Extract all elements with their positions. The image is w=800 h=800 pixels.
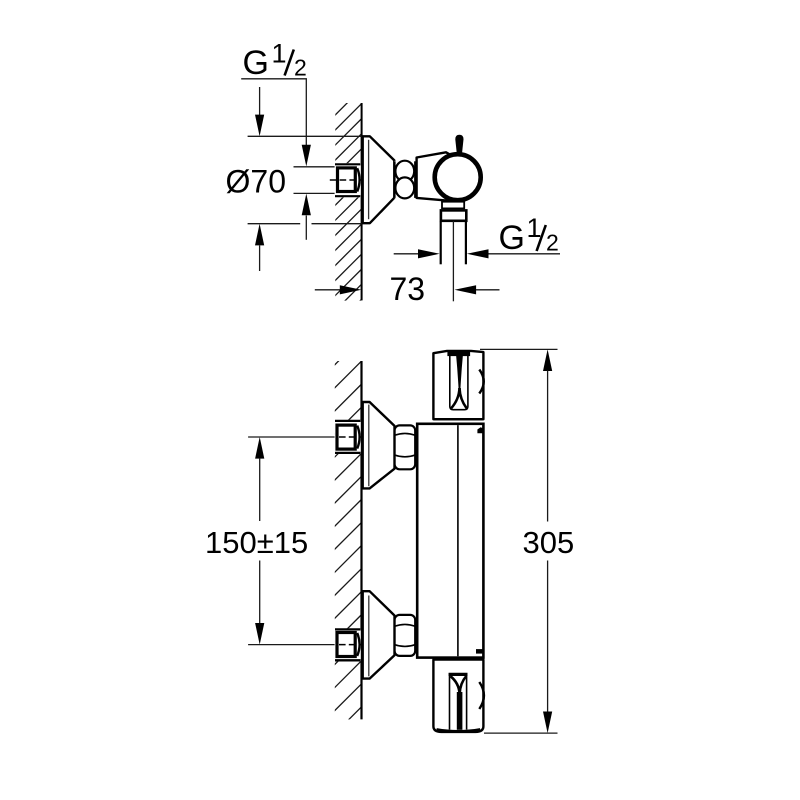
svg-text:1: 1 bbox=[527, 213, 542, 243]
lower square dashed centerline bbox=[339, 644, 361, 646]
union nut flange lines (top view square) bbox=[335, 163, 360, 165]
bottom cap grip top band bbox=[449, 673, 468, 676]
G1/2 pipe dimension line left part with arrow bbox=[394, 253, 418, 255]
Ø70 dimension arrow (up, below bottom line) with shaft bbox=[255, 224, 264, 246]
bottom cap grip wedge bbox=[457, 692, 463, 730]
outlet pipe walls bbox=[440, 222, 442, 265]
wall surface line (front view) bbox=[360, 361, 362, 719]
wall surface line (top view) bbox=[361, 103, 363, 300]
svg-text:2: 2 bbox=[546, 230, 559, 256]
upper spigot dome arc bbox=[357, 426, 359, 449]
lever knob on top bbox=[455, 135, 463, 155]
bottom cap (volume handle) bbox=[433, 660, 483, 732]
leader line under G 1/2 bbox=[241, 79, 306, 146]
top cap grip groove bbox=[450, 354, 468, 410]
top cap grip wedge bbox=[456, 354, 463, 391]
svg-text:G: G bbox=[499, 219, 525, 257]
Ø70 dimension arrow (down, above top line) with shaft bbox=[259, 87, 261, 116]
lower spigot dome arc bbox=[357, 633, 359, 656]
thermostat knob (top view circle) bbox=[435, 154, 481, 200]
lower square white underlay bbox=[335, 628, 361, 661]
neck ring below knob bbox=[442, 202, 464, 209]
upper hex nut (front view) bbox=[395, 425, 416, 469]
top cap grip horns bbox=[451, 388, 459, 408]
dimension text G 1/2 (right) bbox=[499, 213, 559, 257]
square union white underlay bbox=[335, 163, 361, 197]
150±15 lower extension line bbox=[248, 644, 335, 646]
upper escutcheon (front view) bbox=[363, 402, 395, 488]
body clip mark bottom right bbox=[476, 649, 483, 654]
spigot dome arc bbox=[357, 168, 359, 191]
upper square nut (front view) bbox=[337, 425, 355, 449]
svg-text:73: 73 bbox=[390, 271, 426, 307]
escutcheon (top view cone) bbox=[363, 136, 395, 223]
thermostat body (front view) bbox=[417, 424, 483, 658]
305 dimension line with arrows bbox=[543, 349, 552, 371]
150±15 dimension line with arrows bbox=[255, 437, 264, 459]
svg-text:305: 305 bbox=[523, 525, 575, 560]
escutcheon base rim line bbox=[368, 140, 370, 219]
square nut (wall union, top view) bbox=[338, 168, 356, 192]
lower hex nut (front view) bbox=[395, 615, 416, 656]
73 dimension right arrow to pipe centerline bbox=[455, 285, 477, 294]
bottom cap grip groove bbox=[449, 673, 451, 730]
body center seam bbox=[457, 425, 459, 656]
lower union flange lines (front view) bbox=[335, 628, 361, 630]
svg-text:2: 2 bbox=[294, 55, 307, 81]
body clip mark top right bbox=[477, 427, 483, 433]
svg-text:150±15: 150±15 bbox=[205, 525, 308, 560]
150±15 upper extension line bbox=[248, 436, 335, 438]
valve body (top view) bbox=[417, 152, 457, 200]
wall hatch (top view) bbox=[330, 89, 361, 331]
lower square nut (front view) bbox=[337, 633, 355, 657]
G1/2 dimension arrow (down, to thread top line) bbox=[302, 145, 311, 167]
Ø70 extension line (top, escutcheon top) bbox=[248, 135, 362, 137]
top cap bottom edge bbox=[433, 418, 483, 420]
305 top extension line bbox=[480, 348, 558, 350]
bottom cap bottom ellipse bbox=[437, 730, 481, 732]
collar ring bbox=[441, 210, 466, 220]
lower escutcheon (front view) bbox=[363, 591, 395, 678]
top cap (temperature handle) bbox=[433, 351, 483, 419]
dimension text G 1/2 (top left) bbox=[243, 38, 307, 82]
Ø70 extension line (bottom, escutcheon bottom) bbox=[248, 223, 301, 225]
thread extension lines (G1/2, to square nut) bbox=[294, 166, 336, 168]
svg-text:Ø70: Ø70 bbox=[226, 163, 286, 199]
top cap grip dark band bbox=[447, 351, 470, 356]
pipe centerline bbox=[452, 221, 454, 301]
73 dimension left arrow to wall bbox=[315, 289, 340, 291]
G1/2 pipe dimension line right part with arrow bbox=[467, 249, 489, 258]
svg-text:G: G bbox=[243, 44, 269, 82]
upper square dashed centerline bbox=[339, 436, 361, 438]
top cap side curve bbox=[479, 370, 483, 394]
dashed centerline in square (top view) bbox=[330, 179, 361, 181]
bottom cap side curve bbox=[479, 682, 484, 709]
G1/2 dimension arrow (up, from below) with shaft bbox=[302, 194, 311, 216]
wall hatch (front view) bbox=[330, 338, 361, 738]
bottom cap grip horns bbox=[450, 676, 459, 694]
upper square white underlay bbox=[335, 420, 361, 454]
305 bottom extension line bbox=[484, 732, 558, 734]
svg-text:1: 1 bbox=[272, 38, 287, 68]
upper union flange lines (front view) bbox=[335, 420, 361, 422]
